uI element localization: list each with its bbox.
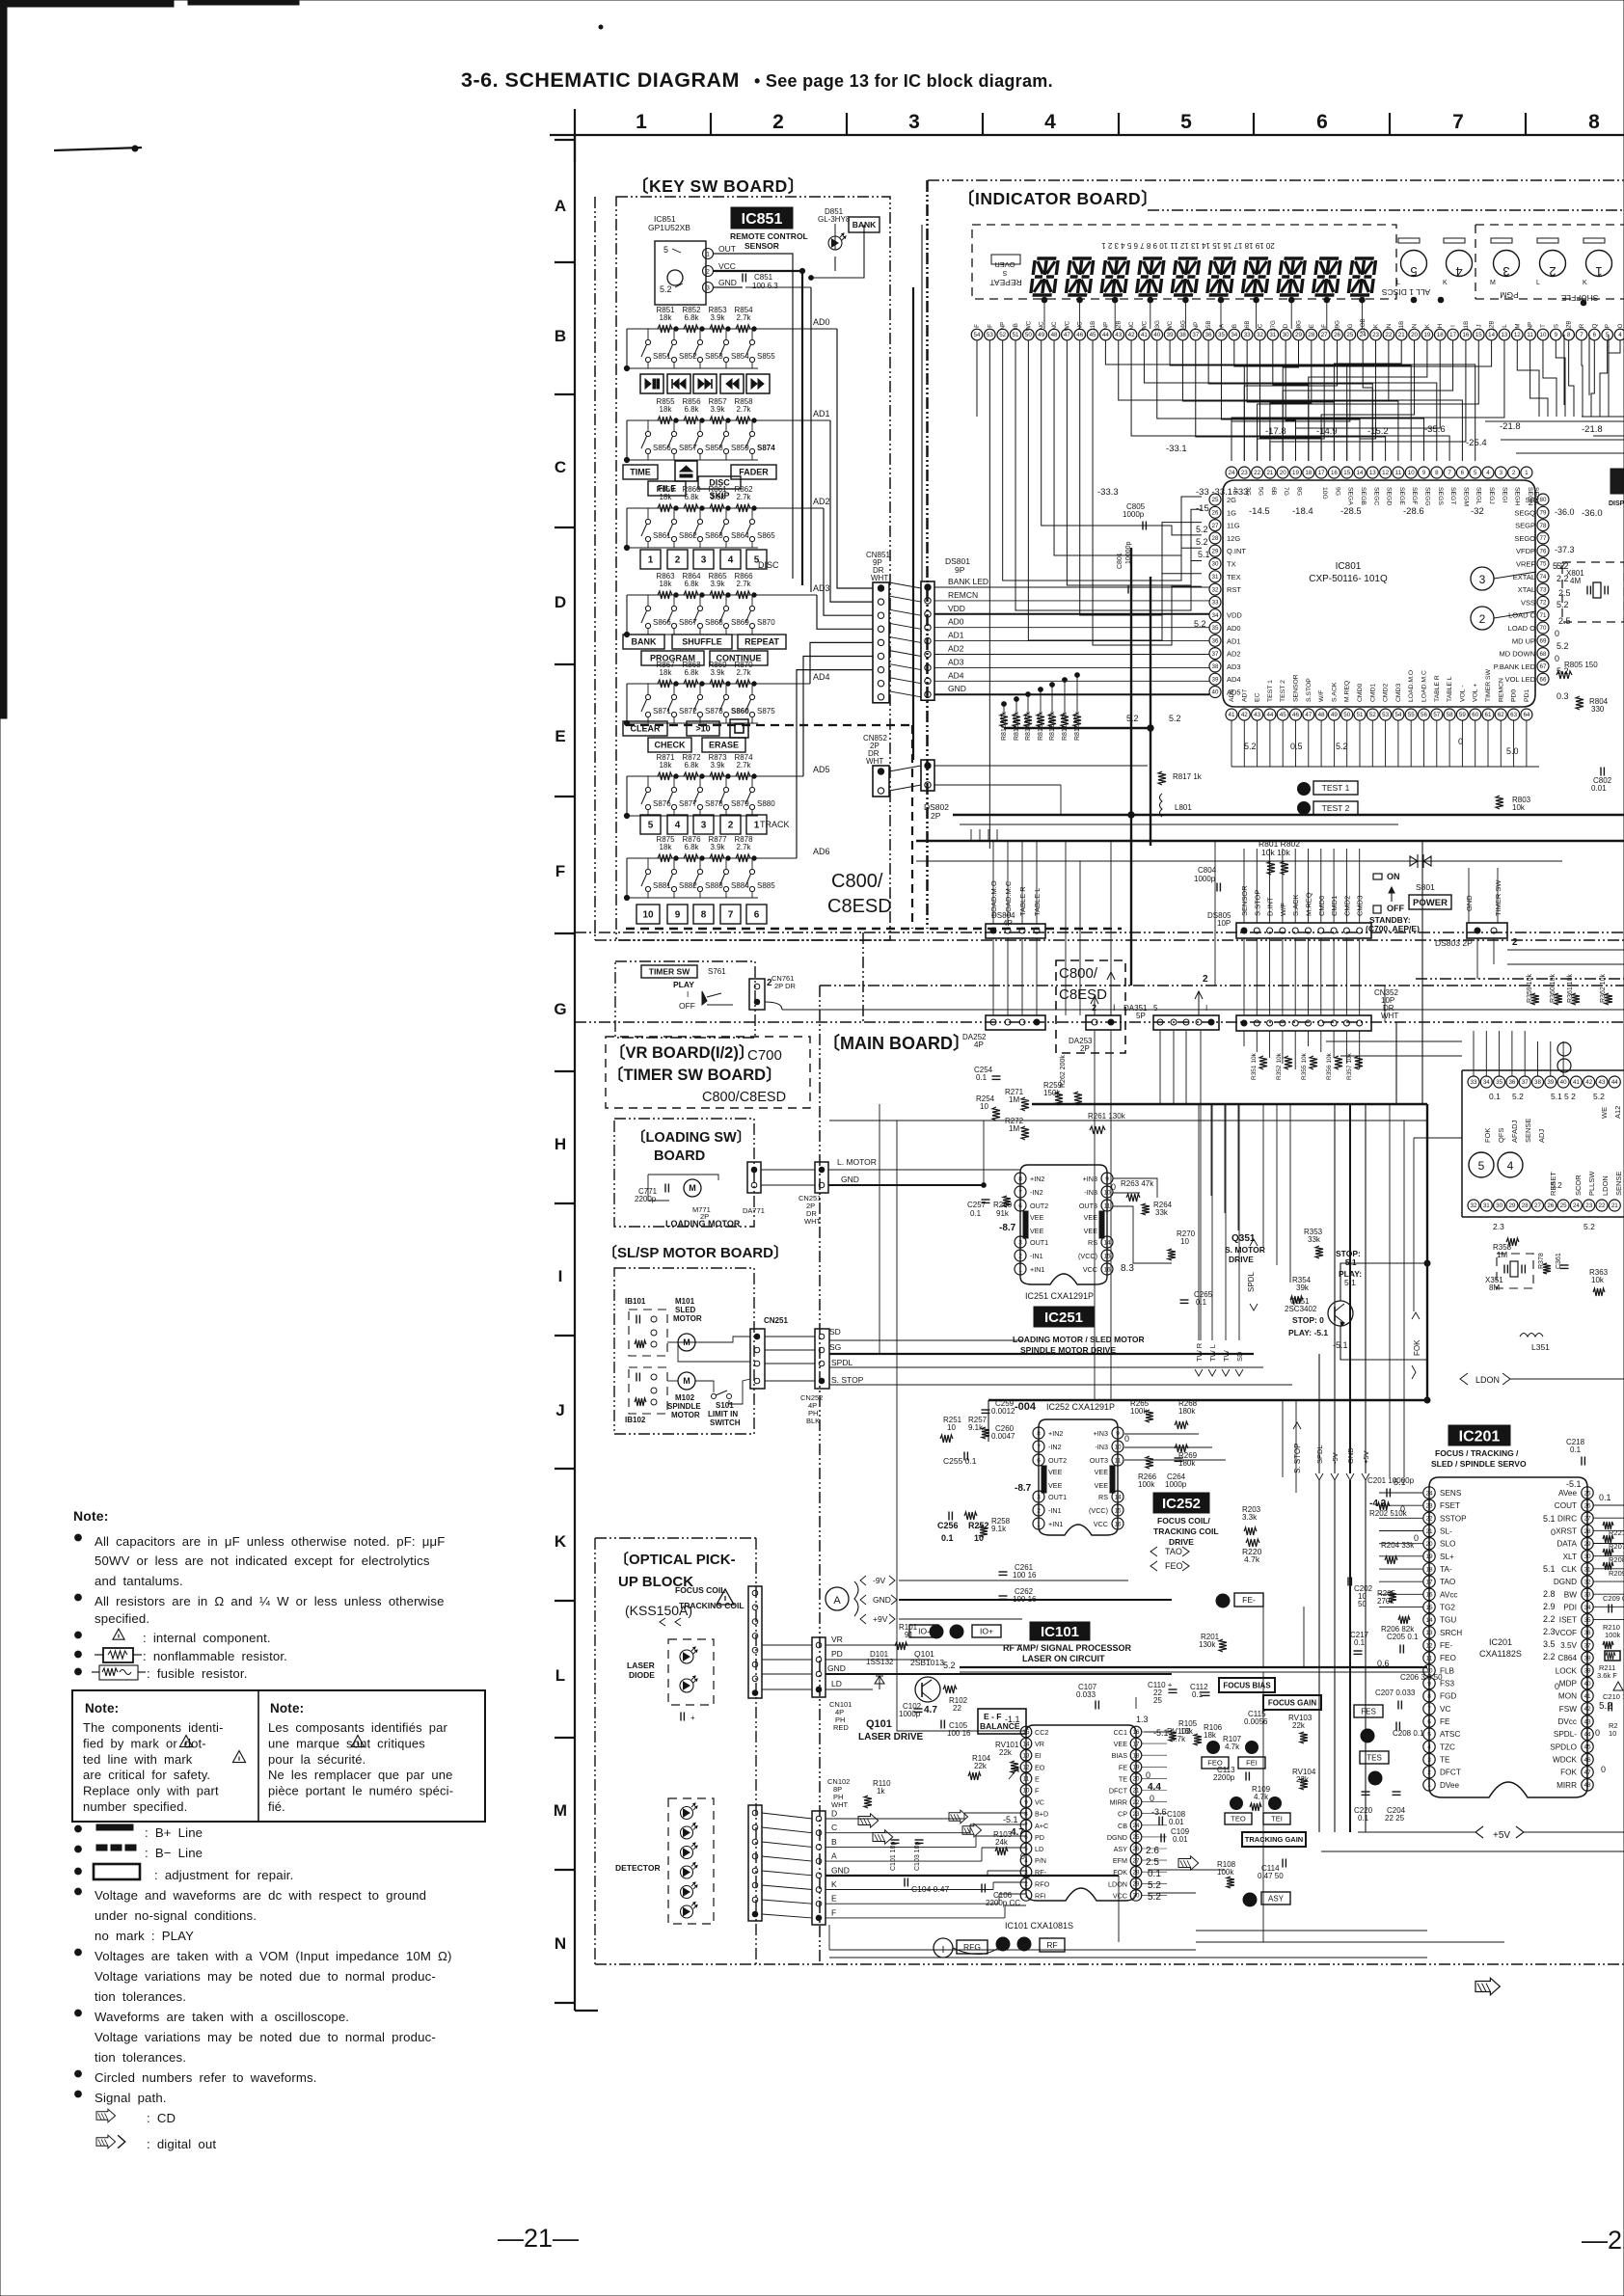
wires below CN352 with resistors — [1243, 1031, 1245, 1046]
svg-text:SSTOP: SSTOP — [1440, 1514, 1467, 1523]
svg-text:14: 14 — [1357, 470, 1364, 476]
svg-text:3: 3 — [701, 555, 707, 566]
left dashdot through connectors — [926, 180, 928, 929]
svg-text:3: 3 — [701, 821, 707, 831]
svg-text:FOK: FOK — [1113, 1868, 1127, 1877]
svg-text:2.3: 2.3 — [1493, 1222, 1504, 1231]
svg-text:5.1: 5.1 — [1543, 1514, 1556, 1524]
svg-text:Q: Q — [1591, 323, 1598, 328]
svg-text:27: 27 — [1321, 332, 1328, 338]
svg-text:16: 16 — [1114, 1521, 1122, 1527]
svg-text:BLK: BLK — [806, 1417, 820, 1425]
svg-text:+IN3: +IN3 — [1083, 1175, 1097, 1183]
svg-text:0.5: 0.5 — [1290, 742, 1303, 751]
svg-text:18: 18 — [1133, 1752, 1140, 1759]
svg-text:C8ESD: C8ESD — [827, 896, 892, 917]
svg-text:PD: PD — [831, 1649, 843, 1659]
svg-text:18k: 18k — [660, 843, 673, 851]
svg-text:49: 49 — [1038, 332, 1044, 338]
safety note boxes — [72, 1690, 485, 1822]
svg-text:15: 15 — [1343, 470, 1350, 476]
svg-text:GND: GND — [831, 1865, 850, 1875]
main horizontal dashdot border — [575, 932, 1624, 933]
svg-text:14: 14 — [1425, 1617, 1433, 1624]
svg-text:DVcc: DVcc — [1557, 1717, 1577, 1726]
svg-text:12: 12 — [1514, 332, 1521, 338]
svg-text:NC: NC — [1128, 321, 1135, 330]
svg-text:IC101: IC101 — [1041, 1624, 1079, 1640]
wires main band verticals — [1065, 841, 1067, 1015]
svg-text:SENS: SENS — [1440, 1489, 1462, 1498]
bottom long rails — [829, 1949, 1196, 1951]
LOADING SW BOARD — [614, 1119, 754, 1227]
svg-text:+: + — [690, 1714, 695, 1722]
svg-text:〔OPTICAL PICK-: 〔OPTICAL PICK- — [614, 1551, 736, 1568]
svg-text:64: 64 — [1523, 712, 1529, 718]
svg-text:13G: 13G — [1154, 320, 1161, 332]
svg-text:10: 10 — [1540, 332, 1547, 338]
svg-text:SEGO: SEGO — [1514, 534, 1535, 543]
wires partial chip — [1473, 1031, 1475, 1076]
svg-text:2: 2 — [1203, 974, 1208, 985]
svg-text:TEST 1: TEST 1 — [1267, 680, 1274, 702]
svg-text:52: 52 — [1369, 712, 1376, 718]
svg-text:-5.1: -5.1 — [1566, 1479, 1582, 1489]
svg-text:B: B — [555, 327, 566, 345]
svg-text:R814 10k: R814 10k — [1025, 712, 1032, 741]
svg-text:-21.8: -21.8 — [1582, 424, 1603, 435]
svg-text:R810 10k: R810 10k — [1074, 712, 1081, 741]
svg-text:12B: 12B — [1116, 320, 1123, 331]
svg-text:56: 56 — [1421, 712, 1427, 718]
svg-text:3.6k F: 3.6k F — [1597, 1671, 1617, 1680]
svg-text:32: 32 — [1583, 1579, 1591, 1585]
svg-text:5: 5 — [663, 245, 668, 255]
svg-text:29: 29 — [1212, 548, 1219, 554]
svg-text:-36.0: -36.0 — [1555, 507, 1575, 517]
svg-text:18k: 18k — [660, 493, 673, 501]
svg-text:CC1: CC1 — [1114, 1728, 1127, 1737]
svg-text:R261 130k: R261 130k — [1088, 1112, 1126, 1121]
svg-text:S.STOP: S.STOP — [1253, 890, 1261, 916]
detector connectors — [748, 1805, 762, 1921]
power LEDs — [1410, 856, 1431, 866]
svg-text:K: K — [831, 1879, 837, 1889]
svg-text:: nonflammable resistor.: : nonflammable resistor. — [143, 1649, 287, 1663]
svg-text:2: 2 — [675, 555, 681, 566]
svg-text:VDD: VDD — [948, 604, 965, 613]
svg-text:MOTOR: MOTOR — [673, 1314, 702, 1323]
svg-text:20: 20 — [1280, 470, 1286, 476]
digit junction dots and drops — [1042, 297, 1047, 303]
svg-text:Note:: Note: — [85, 1701, 119, 1715]
svg-text:1: 1 — [636, 111, 647, 133]
svg-text:DGND: DGND — [1107, 1833, 1127, 1842]
svg-text:21: 21 — [1425, 1528, 1433, 1535]
svg-text:SENSE: SENSE — [1524, 1119, 1532, 1143]
svg-text:-18.4: -18.4 — [1292, 506, 1313, 517]
svg-text:3.9k: 3.9k — [710, 313, 725, 322]
svg-text:〔TIMER SW BOARD〕: 〔TIMER SW BOARD〕 — [608, 1065, 782, 1084]
svg-text:TABLE L: TABLE L — [1447, 676, 1453, 702]
svg-text:4.7: 4.7 — [924, 1705, 937, 1715]
svg-text:9: 9 — [1024, 1799, 1028, 1806]
svg-text:WDCK: WDCK — [1553, 1756, 1578, 1765]
svg-text:18k: 18k — [660, 580, 673, 588]
wires rows to CN851 — [837, 329, 873, 588]
svg-text:SEGI: SEGI — [1501, 487, 1507, 502]
svg-text:SL-: SL- — [1440, 1527, 1452, 1536]
svg-text:43: 43 — [1115, 332, 1122, 338]
svg-text:2.3: 2.3 — [1543, 1627, 1556, 1636]
svg-text:C801: C801 — [1117, 553, 1123, 569]
svg-text:39: 39 — [1212, 676, 1219, 683]
IC201 chip — [1429, 1477, 1587, 1797]
svg-text:5: 5 — [1410, 264, 1417, 279]
svg-text:I: I — [1205, 1004, 1207, 1013]
svg-text:4.7k: 4.7k — [1244, 1554, 1260, 1564]
svg-text:24: 24 — [1229, 470, 1235, 476]
svg-text:C257: C257 — [967, 1201, 987, 1209]
svg-text:L: L — [1396, 280, 1400, 286]
svg-text:16: 16 — [1103, 1266, 1111, 1273]
vertical signal bundle mid — [1210, 1104, 1212, 1196]
svg-text:50: 50 — [1358, 1600, 1367, 1608]
svg-text:IB101: IB101 — [625, 1297, 646, 1306]
svg-text:29: 29 — [1508, 1202, 1515, 1209]
svg-text:DIRC: DIRC — [1557, 1514, 1577, 1523]
svg-text:: B+ Line: : B+ Line — [145, 1825, 203, 1840]
svg-text:SRCH: SRCH — [1440, 1629, 1462, 1637]
svg-text:TRACKING COIL: TRACKING COIL — [1153, 1526, 1219, 1536]
svg-text:TW: TW — [1222, 1349, 1231, 1362]
svg-text:3: 3 — [1502, 264, 1509, 279]
IC251 loading/sled/spindle motor drive — [1020, 1165, 1107, 1284]
svg-text:REPEAT: REPEAT — [989, 278, 1021, 287]
svg-text:26: 26 — [1547, 1202, 1554, 1209]
svg-text:23: 23 — [1585, 1202, 1592, 1209]
svg-text:DGND: DGND — [1554, 1578, 1577, 1586]
svg-text:S761: S761 — [708, 967, 726, 976]
svg-text:39k: 39k — [1296, 1283, 1310, 1292]
svg-text:6: 6 — [1461, 470, 1465, 476]
svg-text:AD0: AD0 — [1227, 624, 1241, 633]
svg-text:I: I — [1113, 1003, 1116, 1013]
svg-text:0.0056: 0.0056 — [1244, 1717, 1268, 1726]
svg-text:VEE: VEE — [1095, 1481, 1109, 1490]
svg-text:1000p: 1000p — [1194, 875, 1216, 883]
svg-text:7: 7 — [1037, 1444, 1041, 1450]
svg-text:47: 47 — [1305, 712, 1312, 718]
svg-text:〔KEY SW BOARD〕: 〔KEY SW BOARD〕 — [632, 176, 805, 196]
svg-text:R816 10k: R816 10k — [1001, 712, 1008, 741]
svg-text:16: 16 — [1133, 1729, 1140, 1736]
IC251 area wires — [983, 1121, 985, 1185]
svg-text:8G: 8G — [1296, 487, 1303, 496]
svg-text:MIRR: MIRR — [1556, 1781, 1577, 1790]
svg-text:0.0012: 0.0012 — [991, 1407, 1015, 1416]
svg-text:1SS132: 1SS132 — [866, 1658, 894, 1666]
svg-text:L: L — [1536, 280, 1540, 286]
svg-text:9P: 9P — [955, 565, 965, 575]
svg-text:6B: 6B — [1270, 487, 1277, 496]
svg-text:BANK: BANK — [632, 637, 657, 647]
svg-text:0.1: 0.1 — [1489, 1092, 1501, 1101]
svg-text:18k: 18k — [1180, 1727, 1194, 1736]
svg-text:22k: 22k — [974, 1762, 988, 1770]
svg-text:DISP: DISP — [1609, 500, 1624, 507]
svg-text:S.ACK: S.ACK — [1331, 682, 1338, 702]
svg-text:M: M — [683, 1376, 690, 1386]
svg-text:0.1: 0.1 — [970, 1209, 982, 1218]
svg-text:11B: 11B — [1090, 321, 1096, 332]
svg-text:FE-: FE- — [1242, 1595, 1256, 1605]
svg-text:F: F — [1321, 324, 1328, 328]
svg-text:AD1: AD1 — [813, 409, 830, 419]
svg-text:34: 34 — [1583, 1605, 1591, 1611]
svg-text:SEGL: SEGL — [1475, 487, 1482, 504]
svg-text:tion tolerances.: tion tolerances. — [95, 2050, 186, 2065]
svg-text:MIRR: MIRR — [1110, 1798, 1127, 1807]
svg-text:3G: 3G — [1244, 487, 1251, 496]
svg-text:47: 47 — [1583, 1769, 1591, 1776]
svg-text:18k: 18k — [660, 405, 673, 414]
svg-text:R359 10k: R359 10k — [1527, 974, 1533, 1003]
svg-text:43: 43 — [1254, 712, 1260, 718]
svg-text:26: 26 — [1334, 332, 1340, 338]
key sw board outline — [616, 197, 890, 940]
svg-text:1.3: 1.3 — [1136, 1715, 1149, 1724]
svg-text:TEST 2: TEST 2 — [1322, 803, 1350, 813]
svg-text:12: 12 — [1023, 1765, 1030, 1771]
svg-text:SEGJ: SEGJ — [1488, 487, 1495, 504]
svg-text:2: 2 — [728, 821, 734, 831]
C800/C8ESD dashed box — [1056, 960, 1125, 1053]
svg-text:IC252: IC252 — [1162, 1496, 1201, 1512]
svg-text:29: 29 — [1583, 1541, 1591, 1548]
svg-text:33: 33 — [1212, 600, 1219, 607]
VR BOARD / TIMER SW BOARD titles — [606, 1037, 810, 1108]
TIMER SW BOARD box — [615, 961, 755, 1038]
svg-text:3: 3 — [706, 285, 710, 292]
svg-text:E - F: E - F — [984, 1712, 1001, 1721]
svg-text:CB: CB — [1118, 1822, 1127, 1830]
svg-text:C201 10000p: C201 10000p — [1367, 1476, 1415, 1485]
motor wires — [667, 1341, 695, 1343]
IC252 outputs to right — [1124, 1433, 1199, 1435]
svg-text:M: M — [689, 1183, 696, 1193]
svg-text:C361: C361 — [1556, 1253, 1562, 1269]
svg-text:30: 30 — [1583, 1553, 1591, 1560]
svg-text:1: 1 — [1595, 264, 1602, 279]
svg-text:1M: 1M — [1009, 1124, 1019, 1133]
svg-text:0: 0 — [1595, 1728, 1600, 1738]
svg-text:GP1U52XB: GP1U52XB — [648, 223, 690, 232]
svg-text:TAO: TAO — [1165, 1547, 1182, 1556]
svg-text:REMCN: REMCN — [1498, 678, 1504, 702]
IC IC101 — [1030, 1622, 1090, 1640]
svg-text:31: 31 — [1269, 332, 1276, 338]
svg-text:40: 40 — [1153, 332, 1160, 338]
svg-text:VEE: VEE — [1084, 1213, 1098, 1222]
svg-text:SPINDLE: SPINDLE — [667, 1402, 701, 1411]
svg-text:-28.6: -28.6 — [1403, 506, 1424, 517]
svg-text:ERASE: ERASE — [709, 741, 739, 750]
svg-text:TZC: TZC — [1440, 1742, 1455, 1751]
svg-text:40: 40 — [1212, 689, 1219, 696]
svg-text:35: 35 — [1212, 625, 1219, 632]
svg-text:3.9k: 3.9k — [710, 580, 725, 588]
svg-text:-33.3: -33.3 — [1097, 487, 1119, 498]
svg-text:9: 9 — [1422, 470, 1426, 476]
svg-text:14: 14 — [1103, 1239, 1111, 1246]
svg-text:F: F — [1035, 1787, 1040, 1796]
svg-text:IB: IB — [1013, 323, 1019, 329]
A circle power — [826, 1587, 849, 1610]
GND thick — [826, 1875, 1119, 1877]
svg-text:N: N — [1412, 324, 1419, 328]
IC252 focus/tracking coil drive — [1039, 1419, 1118, 1535]
svg-text:2.5: 2.5 — [1558, 616, 1571, 626]
svg-text:C209 0.: C209 0. — [1603, 1594, 1624, 1603]
svg-text:11G: 11G — [1227, 522, 1240, 530]
svg-text:-17.8: -17.8 — [1265, 426, 1286, 437]
RFG RF pads — [934, 1938, 953, 1958]
svg-text:13: 13 — [1369, 470, 1376, 476]
svg-text:40: 40 — [1583, 1681, 1591, 1688]
svg-text:20 19 18 17 16 15 14 13 12: 20 19 18 17 16 15 14 13 12 11 10 9 8 7 6… — [1101, 241, 1275, 250]
svg-text:TABLE R: TABLE R — [1018, 886, 1027, 916]
svg-text:Voltages are taken with a VOM: Voltages are taken with a VOM (Input imp… — [95, 1949, 452, 1963]
svg-text:51: 51 — [1013, 332, 1019, 338]
svg-text:0: 0 — [1111, 1182, 1116, 1192]
svg-text:77: 77 — [1540, 535, 1547, 542]
svg-text:22: 22 — [1599, 1202, 1606, 1209]
svg-text:CMD2: CMD2 — [1383, 684, 1390, 702]
R805 R804 — [1556, 671, 1572, 679]
svg-text:42: 42 — [1241, 712, 1248, 718]
svg-text:38: 38 — [1534, 1079, 1541, 1086]
svg-text:H: H — [555, 1135, 566, 1153]
svg-text:TEO: TEO — [1231, 1815, 1246, 1823]
svg-text:3.9k: 3.9k — [710, 405, 725, 414]
svg-text:: digital out: : digital out — [147, 2137, 216, 2151]
svg-text:C800/: C800/ — [1059, 965, 1098, 982]
svg-text:2P DR: 2P DR — [774, 982, 797, 990]
svg-text:1M: 1M — [1497, 1251, 1507, 1259]
svg-text:C864: C864 — [1557, 1654, 1577, 1662]
svg-text:C255 0.1: C255 0.1 — [943, 1456, 977, 1466]
svg-text:VEE: VEE — [1048, 1481, 1063, 1490]
connector row dashdot — [575, 1021, 1624, 1023]
svg-text:R813 10k: R813 10k — [1038, 712, 1044, 741]
svg-text:-IN3: -IN3 — [1084, 1188, 1097, 1197]
svg-text:A: A — [831, 1851, 837, 1861]
svg-text:AD4: AD4 — [1227, 675, 1241, 684]
svg-text:1: 1 — [1037, 1521, 1041, 1527]
svg-text:NP: NP — [1528, 322, 1534, 331]
svg-text:PD1: PD1 — [1524, 689, 1530, 702]
svg-text:4.4: 4.4 — [1148, 1782, 1161, 1793]
svg-text:5: 5 — [1427, 1732, 1431, 1739]
svg-text:XTAL: XTAL — [1518, 585, 1535, 594]
svg-text:OUT2: OUT2 — [1030, 1202, 1048, 1210]
svg-text:LDON: LDON — [1475, 1375, 1500, 1385]
svg-text:CMD3: CMD3 — [1356, 896, 1365, 916]
svg-text:5.2: 5.2 — [943, 1661, 956, 1670]
svg-text:30: 30 — [1133, 1893, 1140, 1900]
svg-text:3.9k: 3.9k — [710, 761, 725, 770]
svg-text:VCC: VCC — [1094, 1520, 1108, 1528]
svg-text:OUT: OUT — [718, 244, 736, 254]
svg-text:S.STOP: S.STOP — [1306, 678, 1313, 702]
svg-text:62: 62 — [1498, 712, 1504, 718]
svg-text:5.2: 5.2 — [1148, 1892, 1161, 1903]
CN251 2P connector — [815, 1162, 828, 1193]
svg-text:37: 37 — [1522, 1079, 1529, 1086]
svg-text:10k 10k: 10k 10k — [1261, 848, 1291, 857]
svg-text:LD: LD — [1035, 1845, 1043, 1853]
svg-text:48: 48 — [1318, 712, 1325, 718]
svg-text:10: 10 — [980, 1102, 988, 1111]
svg-text:R352 10k: R352 10k — [1276, 1052, 1283, 1080]
svg-text:57: 57 — [1433, 712, 1440, 718]
svg-text:4: 4 — [675, 821, 681, 831]
svg-text:54: 54 — [1394, 712, 1401, 718]
svg-text:40: 40 — [1560, 1079, 1567, 1086]
svg-text:WHT: WHT — [1381, 1012, 1398, 1020]
svg-text:17: 17 — [1133, 1741, 1140, 1747]
svg-text:32: 32 — [1471, 1202, 1477, 1209]
svg-text:2: 2 — [706, 269, 710, 276]
svg-text:REMOTE CONTROL: REMOTE CONTROL — [730, 231, 808, 241]
svg-text:11B: 11B — [1463, 321, 1470, 332]
svg-text:5.2: 5.2 — [1553, 561, 1565, 571]
svg-text:52: 52 — [999, 332, 1006, 338]
svg-text:RFI: RFI — [1035, 1891, 1046, 1900]
E-F BALANCE — [978, 1709, 1026, 1734]
svg-text:TIME: TIME — [630, 468, 651, 477]
svg-text:15: 15 — [1114, 1507, 1122, 1514]
svg-text:17: 17 — [1449, 332, 1456, 338]
svg-text:RED: RED — [833, 1723, 849, 1732]
svg-text:-25.4: -25.4 — [1466, 438, 1487, 448]
svg-text:4.7: 4.7 — [1011, 1827, 1024, 1838]
svg-text:10k: 10k — [1512, 803, 1526, 812]
svg-text:5: 5 — [1474, 470, 1477, 476]
svg-text:TG2: TG2 — [1440, 1604, 1455, 1612]
svg-text:BW: BW — [1564, 1590, 1577, 1599]
svg-text:10G: 10G — [1321, 487, 1328, 500]
svg-text:17: 17 — [1318, 470, 1325, 476]
svg-text:XLT: XLT — [1563, 1553, 1577, 1561]
svg-text:33: 33 — [1244, 332, 1251, 338]
keysw bottom dashdot — [595, 939, 1624, 941]
svg-text:OUT3: OUT3 — [1090, 1456, 1108, 1465]
svg-text:44: 44 — [1583, 1732, 1591, 1739]
svg-text:7: 7 — [1024, 1823, 1028, 1829]
svg-text:SEGP: SEGP — [1515, 522, 1535, 530]
svg-text:36: 36 — [1212, 638, 1219, 645]
svg-text:K: K — [1583, 280, 1587, 286]
svg-text:are critical for safety.: are critical for safety. — [83, 1768, 210, 1782]
svg-text:14G: 14G — [1179, 320, 1186, 332]
14-seg digits — [1031, 258, 1059, 295]
svg-text:0: 0 — [1458, 737, 1463, 746]
svg-text:PLAY: -5.1: PLAY: -5.1 — [1288, 1328, 1328, 1337]
svg-text:5: 5 — [1180, 111, 1192, 133]
svg-text:SEGA: SEGA — [1347, 487, 1354, 505]
